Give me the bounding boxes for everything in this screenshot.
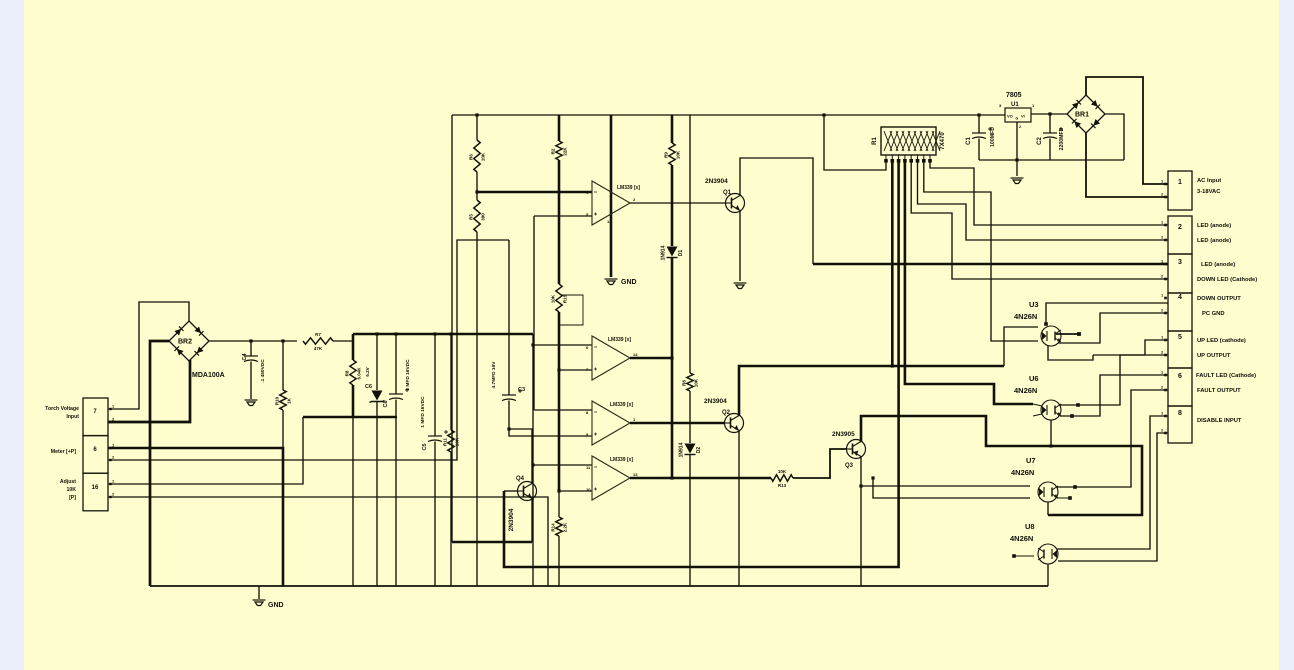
svg-text:R7: R7	[315, 332, 321, 337]
svg-text:DISABLE INPUT: DISABLE INPUT	[1197, 418, 1242, 424]
zener diode C6 6.2V	[372, 391, 383, 401]
wire C2 bottom lead	[1049, 139, 1051, 161]
J1 wire pad	[1164, 354, 1167, 357]
svg-text:4: 4	[1178, 294, 1182, 301]
U7 out1 pad	[1073, 485, 1077, 489]
capacitor C5	[428, 436, 442, 442]
wire comp4 line to U7	[873, 478, 1030, 498]
wire C1 bottom lead	[978, 139, 980, 161]
resistor R10	[280, 390, 286, 410]
svg-text:4.7MFD 16V: 4.7MFD 16V	[491, 361, 497, 389]
resistor R6	[474, 140, 480, 172]
wire adjust pin16-1	[108, 417, 303, 484]
svg-text:2: 2	[1178, 224, 1182, 231]
wire meter pin6-1	[108, 448, 283, 586]
wire 559 to R14	[558, 491, 560, 517]
svg-text:10: 10	[586, 487, 591, 492]
svg-text:3: 3	[1178, 259, 1182, 266]
left pin pad	[109, 483, 111, 485]
svg-text:D2: D2	[696, 447, 702, 454]
svg-text:47K: 47K	[314, 346, 323, 351]
bridge rectifier BR2	[169, 321, 209, 361]
transistor Q3 2N3905	[847, 440, 866, 459]
wire comparator4 plus feed	[559, 490, 592, 492]
svg-text:R8: R8	[682, 380, 687, 386]
junction 873 comp4 line	[871, 476, 874, 479]
op-amp U2A LM339 input marks	[594, 192, 597, 216]
svg-text:C5: C5	[422, 443, 428, 450]
svg-text:2N3905: 2N3905	[832, 431, 855, 438]
wire rail drop 533	[532, 334, 534, 586]
transistor Q1 2N3904	[726, 194, 745, 213]
svg-text:10K: 10K	[551, 294, 556, 303]
svg-text:4N26N: 4N26N	[1011, 468, 1034, 477]
svg-text:Q2: Q2	[722, 410, 731, 416]
svg-text:10K: 10K	[778, 469, 787, 474]
svg-text:FAULT OUTPUT: FAULT OUTPUT	[1197, 388, 1241, 394]
wire Q4 emitter to left	[452, 541, 532, 544]
svg-text:R5: R5	[469, 214, 474, 220]
op-amp U2C LM339	[592, 401, 630, 445]
wire U8 base stub	[1014, 555, 1034, 557]
wire U3 bottom路	[1048, 346, 1093, 360]
svg-text:Adjust: Adjust	[60, 479, 76, 485]
wire BR2 minus to ground bus	[150, 341, 169, 586]
diode D1 1N914	[667, 247, 678, 257]
wire R13 to Q3 base	[793, 449, 847, 478]
wire U6 cathode lead	[1033, 414, 1042, 416]
wire BR2 plus rail	[209, 340, 297, 342]
resistor R13	[771, 475, 793, 481]
svg-text:AC Input: AC Input	[1197, 178, 1221, 184]
wire comp3 output	[630, 422, 725, 425]
svg-text:390: 390	[481, 213, 486, 221]
svg-text:10K: 10K	[676, 150, 681, 159]
optocoupler U6 4N26N	[1041, 400, 1061, 420]
svg-text:FAULT LED (Cathode): FAULT LED (Cathode)	[1196, 373, 1256, 379]
svg-text:U7: U7	[1026, 456, 1036, 465]
svg-text:R11: R11	[443, 438, 448, 447]
svg-text:C2: C2	[1037, 137, 1043, 145]
svg-text:1N914: 1N914	[679, 442, 685, 457]
resistor network R1 crosshatch	[884, 131, 940, 151]
wire R1 pin8 to pin2-1	[930, 162, 1168, 225]
wire R1 pin3 long to Q4	[504, 162, 899, 567]
wire U7 out2 stub	[1057, 497, 1070, 499]
svg-text:LED (anode): LED (anode)	[1197, 223, 1231, 229]
wire top +5 rail	[452, 114, 1005, 116]
svg-text:Q3: Q3	[845, 463, 854, 469]
wire comparator2 minus feed	[533, 344, 592, 346]
wire Q1 collector to pin3-1	[813, 263, 1168, 266]
wire Q3 emitter	[860, 456, 862, 586]
svg-text:22K: 22K	[563, 147, 568, 156]
wire comp4 output	[630, 477, 771, 480]
svg-text:D1: D1	[678, 250, 684, 257]
R1 pin row	[886, 155, 930, 160]
wire pin7-1 to BR2 top	[108, 302, 189, 409]
connector J2 outline	[83, 398, 108, 511]
J1 wire pad	[1164, 339, 1167, 342]
svg-text:7805: 7805	[1006, 92, 1022, 99]
ground symbol main	[253, 600, 266, 606]
U8 base pad	[1012, 554, 1016, 558]
svg-text:R1: R1	[872, 137, 878, 145]
wire U3 output stub	[1056, 333, 1079, 335]
wire U3 out2 to pin4-2	[1058, 313, 1168, 343]
svg-text:13: 13	[633, 472, 638, 477]
svg-text:C3: C3	[518, 387, 525, 393]
junction rail to R1 drop	[822, 113, 825, 116]
junction U6 bottom	[1049, 444, 1052, 447]
junction R10 tap	[281, 339, 284, 342]
bridge rectifier BR1	[1067, 95, 1105, 133]
junction C5 tap	[433, 332, 436, 335]
wire 672 mid	[671, 165, 674, 246]
svg-text:LM339 [x]: LM339 [x]	[610, 457, 633, 463]
svg-text:Q1: Q1	[723, 190, 732, 196]
J1 wire pad	[1164, 432, 1167, 435]
wire Q4 base	[504, 490, 517, 492]
U7 out2 pad	[1068, 496, 1072, 500]
svg-text:10K: 10K	[481, 152, 486, 161]
junction R6 rail	[475, 113, 478, 116]
svg-text:10K: 10K	[66, 487, 76, 493]
wire R6 R5 link	[476, 172, 478, 200]
svg-text:PC GND: PC GND	[1202, 311, 1225, 317]
resistor network R1 body	[881, 127, 936, 155]
wire Q4 emitter	[531, 498, 533, 542]
junction U1 gnd rail	[1015, 158, 1018, 161]
svg-text:R2: R2	[551, 148, 556, 154]
junction 533 465	[531, 463, 534, 466]
wire U6 out1 to pin5-2	[1060, 355, 1168, 405]
J1 wire pad	[1164, 312, 1167, 315]
svg-text:DOWN OUTPUT: DOWN OUTPUT	[1197, 296, 1241, 302]
wire 534 vertical	[533, 216, 535, 410]
wire 509 top	[508, 240, 510, 395]
junction Q2 collector R1 line	[891, 364, 894, 367]
resistor R9	[669, 143, 675, 165]
wire zener bottom lead	[376, 402, 378, 586]
wire R1 pin5 to pin3-2	[911, 162, 1168, 279]
wire comparator4 minus feed	[533, 464, 592, 466]
svg-text:.1 450VDC: .1 450VDC	[260, 359, 266, 383]
U6 out2 pad	[1070, 414, 1074, 418]
wire R1 pin7 to U3 cathode	[924, 162, 1038, 341]
wire 672 top	[671, 115, 674, 143]
svg-text:C8: C8	[383, 400, 389, 407]
svg-text:1 MFD 16VDC: 1 MFD 16VDC	[420, 396, 426, 428]
wire R1 pin1 to rail	[824, 115, 886, 170]
wire C5 bottom lead	[434, 442, 436, 587]
wire U6 led bottom	[1050, 420, 1052, 446]
svg-text:7X470: 7X470	[940, 132, 946, 150]
wire comp2 output	[630, 357, 672, 360]
wire 559 mid	[558, 160, 561, 284]
connector J1 outline	[1168, 171, 1192, 443]
wire C8 bottom lead	[395, 400, 397, 587]
wire pin7-2 to BR2 bottom	[108, 360, 190, 422]
wire 672 low	[671, 258, 674, 478]
diode D2 1N914	[685, 444, 696, 454]
J1 wire pad	[1164, 224, 1167, 227]
J1 wire pad	[1164, 263, 1167, 266]
wire U8 out1 to pin8-1	[1057, 416, 1168, 549]
junction comparator2 plus	[557, 368, 560, 371]
svg-text:10K: 10K	[694, 378, 699, 387]
junction R11 tap	[449, 332, 452, 335]
wire R11 bottom lead	[450, 452, 452, 586]
wire Q2 collector	[739, 366, 1004, 416]
svg-text:MDA100A: MDA100A	[192, 372, 225, 379]
svg-text:4N26N: 4N26N	[1014, 312, 1037, 321]
resistor R2	[556, 141, 562, 160]
svg-text:C6: C6	[365, 384, 372, 390]
ground opamp	[605, 279, 618, 285]
svg-text:100MFD: 100MFD	[990, 127, 996, 147]
svg-text:16: 16	[92, 485, 99, 491]
svg-text:14: 14	[633, 352, 638, 357]
svg-text:Input: Input	[66, 414, 79, 420]
J1 wire pad	[1164, 239, 1167, 242]
svg-text:R9: R9	[664, 152, 669, 158]
optocoupler U3 4N26N	[1041, 326, 1061, 346]
wire comp1 output	[630, 202, 726, 204]
svg-text:R14: R14	[551, 523, 556, 532]
svg-text:3-18VAC: 3-18VAC	[1197, 189, 1221, 195]
wire R10 bottom lead	[282, 410, 284, 448]
wire U6 out2 to pin6-1	[1060, 375, 1168, 416]
wire 690 top	[689, 115, 691, 373]
svg-text:2200MFD: 2200MFD	[1059, 127, 1065, 150]
wire U3 emitter to pin5-1	[1093, 340, 1168, 355]
wire 559 top	[558, 115, 561, 141]
wire Q3 collector	[861, 416, 1142, 515]
wire regulator ground rail	[979, 159, 1124, 161]
svg-text:4N26N: 4N26N	[1010, 534, 1033, 543]
svg-text:UP OUTPUT: UP OUTPUT	[1197, 353, 1231, 359]
wire R1 pin6 to pin2-2	[918, 162, 1169, 240]
resistor R14	[556, 517, 562, 536]
svg-text:R8: R8	[345, 370, 350, 376]
svg-text:2N3904: 2N3904	[705, 178, 728, 185]
wire Q2 emitter	[738, 431, 740, 586]
svg-text:U1: U1	[1011, 102, 1019, 108]
wire Q4 collector	[509, 429, 532, 484]
op-amp U2A LM339	[592, 181, 630, 225]
svg-text:6.2V: 6.2V	[365, 367, 370, 376]
svg-text:R15: R15	[563, 294, 568, 303]
junction C4 tap	[249, 339, 252, 342]
wire C4 top lead	[250, 341, 252, 356]
wire ref to comparator 1	[477, 191, 592, 194]
svg-text:6.04K: 6.04K	[357, 367, 362, 380]
svg-text:C4: C4	[242, 353, 248, 361]
optocoupler U8 4N26N	[1038, 544, 1058, 564]
svg-text:1 MFD 16VDC: 1 MFD 16VDC	[405, 359, 411, 391]
svg-text:2N3904: 2N3904	[704, 398, 727, 405]
svg-text:G: G	[1016, 117, 1019, 121]
U6 out1 pad	[1076, 403, 1080, 407]
resistor R5	[474, 200, 480, 232]
wire Q3 emitter to U7	[861, 485, 1030, 487]
svg-text:6: 6	[1178, 373, 1182, 380]
J1 wire pad	[1164, 297, 1167, 300]
wire U6 anode lead	[1033, 404, 1042, 406]
wire C1 top lead	[978, 115, 980, 133]
wire BR1 top to pin1-1	[1086, 77, 1168, 184]
resistor R8 6.04K	[350, 360, 356, 385]
svg-text:LED (anode): LED (anode)	[1197, 238, 1231, 244]
svg-text:VO: VO	[1007, 114, 1013, 119]
wire 690 low	[689, 455, 691, 586]
wire R1 pin2 long	[891, 162, 894, 366]
svg-text:BR1: BR1	[1075, 112, 1089, 119]
svg-text:GND: GND	[621, 279, 637, 286]
wire supply rail mid	[353, 333, 533, 336]
wire Q1 collector	[740, 158, 813, 264]
svg-text:Torch Voltage: Torch Voltage	[45, 406, 79, 412]
op-amp U2D LM339 input marks	[594, 467, 597, 491]
svg-text:LM339 [x]: LM339 [x]	[617, 185, 640, 191]
svg-text:U6: U6	[1029, 374, 1039, 383]
wire C8 top lead	[395, 334, 397, 394]
wire thick link 417	[303, 416, 397, 419]
op-amp U2B LM339	[592, 336, 630, 380]
op-amp U2D LM339	[592, 456, 630, 500]
junction comp2 out	[670, 356, 673, 359]
wire U1 ground pin	[1016, 122, 1018, 176]
svg-text:5: 5	[1178, 334, 1182, 341]
svg-text:VI: VI	[1021, 114, 1025, 119]
resistor R8	[687, 373, 693, 391]
wire 690 mid	[689, 391, 691, 443]
wire opamp ground line	[610, 115, 613, 277]
capacitor C8	[389, 394, 403, 400]
left pin pad	[109, 459, 111, 461]
wire +5 left vertical	[451, 115, 453, 542]
left pin pad	[109, 421, 111, 423]
svg-text:C1: C1	[966, 137, 972, 145]
wire R5 bottom	[476, 232, 478, 586]
ground tap stub	[258, 586, 260, 599]
wire Q1 emitter	[739, 211, 741, 281]
junction C2 tap	[1048, 112, 1051, 115]
ground bus	[150, 585, 1048, 587]
J1 wire pad	[1164, 415, 1167, 418]
left pin pad	[109, 447, 111, 449]
wire R6 top lead	[476, 115, 478, 140]
wire 353 vertical bottom	[352, 385, 355, 417]
wire U1 input side	[1031, 113, 1067, 115]
svg-text:8: 8	[1178, 410, 1182, 417]
left pin pad	[109, 496, 111, 498]
wire adjust pin16-2	[108, 497, 548, 586]
op-amp U2C LM339 input marks	[594, 412, 597, 436]
junction comp4 out line	[670, 476, 673, 479]
svg-text:U8: U8	[1025, 522, 1035, 531]
wire C5 top lead	[434, 334, 436, 436]
junction comparator ref node	[475, 190, 478, 193]
wire R1 pin4 to U6	[905, 162, 1033, 404]
wire U3 anode feed	[1004, 327, 1038, 366]
svg-text:4N26N: 4N26N	[1014, 386, 1037, 395]
wire 353 vertical top	[352, 334, 355, 360]
wire zener top lead	[376, 334, 378, 390]
svg-text:[P]: [P]	[69, 495, 76, 501]
svg-text:1K: 1K	[287, 397, 292, 404]
U3 collector pad	[1044, 322, 1048, 326]
resistor R15	[556, 284, 562, 312]
transistor Q2 2N3904	[725, 414, 744, 433]
wire U8 bottom from ground bus	[1047, 564, 1049, 586]
svg-text:1: 1	[1178, 179, 1182, 186]
svg-text:Meter [+P]: Meter [+P]	[51, 449, 76, 455]
wire R14 bottom	[558, 536, 560, 586]
J1 wire pad	[1164, 278, 1167, 281]
op-amp U2B LM339 input marks	[594, 347, 597, 371]
wire C4 bottom lead	[250, 362, 252, 400]
svg-text:12: 12	[607, 219, 612, 224]
J1 wire pad	[1164, 389, 1167, 392]
wire R10 top lead	[282, 341, 284, 390]
wire 509 bottom	[509, 401, 592, 437]
capacitor C1	[972, 133, 986, 139]
svg-text:LED (anode): LED (anode)	[1201, 262, 1235, 268]
resistor R11	[448, 430, 454, 452]
junction zener tap	[375, 332, 378, 335]
svg-text:DOWN LED (Cathode): DOWN LED (Cathode)	[1197, 277, 1257, 283]
wire U3 collector to pin4-1	[1046, 303, 1168, 324]
capacitor C4	[244, 356, 258, 362]
wire meter pin6-2	[108, 240, 509, 460]
J1 wire pad	[1164, 196, 1167, 199]
wire R7 to node	[333, 340, 353, 342]
wire comparator1 plus feed	[534, 215, 592, 217]
svg-text:Q4: Q4	[516, 476, 525, 482]
wire U7 led bottom lead	[1047, 502, 1049, 515]
transistor Q4 2N3904	[518, 482, 537, 501]
svg-text:R13: R13	[778, 483, 787, 488]
svg-text:U3: U3	[1029, 300, 1039, 309]
junction 509 429	[507, 427, 510, 430]
wire comparator2 plus feed	[559, 369, 592, 371]
regulator U1 body	[1005, 108, 1031, 122]
svg-text:R10: R10	[275, 396, 280, 405]
wire BR1 bottom to pin1-2	[1086, 133, 1168, 197]
ground U1	[1011, 178, 1024, 184]
resistor R7	[303, 338, 333, 344]
ground Q1	[734, 283, 747, 289]
svg-text:LM339 [x]: LM339 [x]	[608, 337, 631, 343]
wire 559 below R15	[558, 312, 561, 491]
J1 wire pad	[1164, 183, 1167, 186]
left pin pad	[109, 408, 111, 410]
optocoupler U7 4N26N	[1038, 482, 1058, 502]
J1 wire pad	[1164, 374, 1167, 377]
capacitor C2	[1043, 133, 1057, 139]
svg-text:2.2K: 2.2K	[563, 522, 568, 532]
ground at C4	[245, 400, 258, 406]
wire comparator3 minus feed	[534, 409, 592, 411]
wire C2 top lead	[1049, 114, 1051, 133]
svg-text:2N3904: 2N3904	[508, 508, 515, 531]
wire R11 top lead	[450, 334, 452, 430]
svg-text:BR2: BR2	[178, 339, 192, 346]
svg-text:1N914: 1N914	[661, 245, 667, 260]
capacitor C3	[502, 395, 516, 401]
